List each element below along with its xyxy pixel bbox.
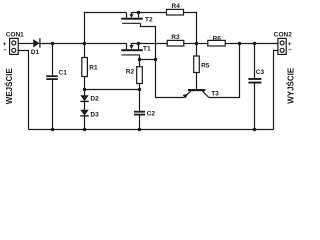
connector CON1 bbox=[10, 38, 19, 54]
svg-text:R1: R1 bbox=[89, 64, 98, 71]
wire gate junction down to T3 emitter bbox=[156, 60, 184, 98]
svg-text:WEJŚCIE: WEJŚCIE bbox=[5, 68, 14, 105]
wire CON1 top pin to D1 anode bbox=[18, 43, 33, 45]
node D2 anode junction bbox=[83, 88, 86, 91]
wire R1 bottom to node bbox=[84, 77, 86, 90]
svg-text:D2: D2 bbox=[90, 95, 99, 102]
wire T2 drain rail to R4 bbox=[131, 12, 167, 14]
wire T3 collector to output rail bbox=[209, 44, 240, 98]
resistor R1 bbox=[82, 58, 88, 77]
svg-text:R3: R3 bbox=[171, 34, 180, 41]
svg-text:CON2: CON2 bbox=[274, 32, 292, 39]
wire T2 gate down and across bbox=[141, 23, 156, 59]
wire T1 gate down bbox=[139, 55, 141, 60]
wire R6 right to CON2 bbox=[225, 43, 278, 45]
transistor T3 bbox=[183, 89, 209, 98]
resistor R5 bbox=[194, 56, 200, 73]
svg-text:T3: T3 bbox=[211, 90, 219, 97]
wire D1 cathode to T1 source (main rail) bbox=[40, 43, 126, 45]
svg-text:–: – bbox=[3, 47, 7, 54]
wire C3 bottom to ground rail bbox=[254, 84, 256, 130]
wire node to R6 bbox=[197, 43, 208, 45]
capacitor C3 bbox=[248, 78, 261, 84]
wire between gate junctions bbox=[140, 59, 156, 61]
wire ground rail up to CON2 bottom pin bbox=[274, 51, 278, 130]
resistor R2 bbox=[137, 67, 143, 84]
node C3 top junction bbox=[253, 42, 256, 45]
svg-text:CON1: CON1 bbox=[6, 32, 24, 39]
node C1 top junction bbox=[51, 42, 54, 45]
node D3 ground junction bbox=[83, 128, 86, 131]
wire R3 right to node bbox=[184, 43, 197, 45]
svg-text:D3: D3 bbox=[90, 111, 99, 118]
node T3 collector junction bbox=[238, 42, 241, 45]
wire R4 right down to node bbox=[184, 13, 197, 44]
resistor R3 bbox=[167, 40, 184, 46]
svg-text:T2: T2 bbox=[145, 16, 153, 23]
svg-text:R5: R5 bbox=[201, 62, 210, 69]
wire R5 bottom to T3 base bbox=[196, 73, 198, 90]
wire R2 top bbox=[139, 60, 141, 67]
svg-text:R4: R4 bbox=[172, 3, 181, 10]
resistor R4 bbox=[167, 9, 184, 15]
svg-text:C3: C3 bbox=[256, 69, 265, 76]
node gate T2 junction bbox=[154, 58, 157, 61]
node T2 drain junction bbox=[137, 11, 140, 14]
diode D1 bbox=[33, 38, 40, 47]
wire C2 top bbox=[139, 90, 141, 111]
node C3 ground junction bbox=[253, 128, 256, 131]
wire node to C2 node bbox=[85, 89, 140, 91]
wire branch up to T2 rail bbox=[85, 13, 127, 44]
svg-text:C1: C1 bbox=[59, 69, 68, 76]
wire ground rail bbox=[29, 129, 274, 131]
wire R2 bottom to C2 node bbox=[139, 84, 141, 90]
wire D2 to D3 bbox=[84, 101, 86, 110]
capacitor C1 bbox=[46, 75, 58, 80]
node gate R2 junction bbox=[138, 58, 141, 61]
svg-text:R6: R6 bbox=[213, 35, 222, 42]
svg-text:C2: C2 bbox=[147, 110, 156, 117]
svg-text:–: – bbox=[288, 46, 292, 53]
node C2 top junction bbox=[138, 88, 141, 91]
wire R5 top bbox=[196, 44, 198, 57]
connector CON2 bbox=[278, 38, 286, 54]
node T1 drain junction bbox=[137, 42, 140, 45]
wire C1 branch down bbox=[52, 44, 54, 76]
svg-text:D1: D1 bbox=[31, 49, 40, 56]
transistor T1 bbox=[121, 44, 142, 55]
diode D3 bbox=[80, 110, 88, 116]
svg-text:WYJŚCIE: WYJŚCIE bbox=[286, 67, 295, 104]
resistor R6 bbox=[208, 40, 225, 46]
wire T1 drain rail to R3 bbox=[131, 43, 167, 45]
wire C2 bottom to ground rail bbox=[139, 116, 141, 130]
wire C1 bottom to ground rail bbox=[52, 80, 54, 130]
node C2 ground junction bbox=[138, 128, 141, 131]
capacitor C2 bbox=[134, 111, 145, 116]
wire CON1 bottom pin to ground rail bbox=[18, 51, 28, 130]
diode D2 bbox=[80, 95, 88, 101]
wire R1 branch down bbox=[84, 44, 86, 58]
svg-text:T1: T1 bbox=[143, 46, 151, 53]
transistor T2 bbox=[121, 13, 142, 24]
svg-text:R2: R2 bbox=[126, 68, 135, 75]
node R1 top junction bbox=[83, 42, 86, 45]
node C1 ground junction bbox=[51, 128, 54, 131]
wire D3 to ground rail bbox=[84, 116, 86, 130]
wire node to D2 bbox=[84, 90, 86, 96]
node R3 R4 R5 R6 junction bbox=[195, 42, 198, 45]
wire C3 branch down bbox=[254, 44, 256, 79]
